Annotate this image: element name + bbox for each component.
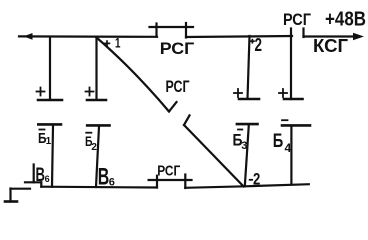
battery Б4 minus plate [282, 124, 310, 127]
svg-text:В: В [36, 165, 46, 186]
svg-text:КСГ: КСГ [313, 36, 348, 56]
wire W1 [52, 126, 53, 187]
battery Б4 plus plate [284, 98, 303, 101]
wire top bus left segment [19, 35, 157, 38]
svg-text:3: 3 [241, 140, 247, 152]
battery Б3 minus sign [238, 129, 242, 131]
contact Вб bridge [25, 181, 41, 183]
svg-text:2: 2 [255, 35, 263, 55]
battery Б1 plus sign [37, 88, 45, 96]
battery Б3 plus plate [239, 98, 259, 101]
battery Б3 plus sign [234, 89, 242, 97]
node КСГ arrow [353, 33, 364, 41]
svg-text:6: 6 [45, 174, 50, 184]
wire V4 [290, 29, 292, 100]
svg-text:Б: Б [273, 131, 284, 152]
wire top bus right segment [186, 36, 292, 37]
svg-text:РСГ: РСГ [160, 39, 195, 58]
svg-text:+48В: +48В [325, 9, 366, 31]
battery Б2 minus plate [87, 124, 109, 127]
wire bottom bus middle [41, 186, 157, 189]
battery Б4 minus sign [282, 119, 288, 121]
ground [5, 200, 17, 203]
svg-text:6: 6 [109, 177, 115, 189]
battery Б2 minus sign [86, 132, 91, 134]
battery Б1 minus plate [38, 123, 61, 126]
wire bottom bus right [185, 184, 308, 188]
svg-text:В: В [98, 164, 110, 191]
wire W3 [245, 125, 249, 186]
label -2 [249, 179, 253, 181]
wire КСГ output [304, 35, 357, 37]
svg-text:2: 2 [253, 170, 260, 189]
contact Вб step [40, 182, 42, 186]
wire W4 [290, 127, 292, 185]
contact РСГ1 left tick [155, 24, 157, 37]
svg-text:РСГ: РСГ [166, 77, 190, 96]
wire W2 [96, 127, 99, 188]
contact Вб tick [33, 165, 35, 183]
svg-text:РСГ: РСГ [283, 10, 311, 29]
wire bottom bus left [11, 188, 31, 190]
svg-text:4: 4 [285, 141, 292, 155]
switch blade diagonal upper [97, 38, 170, 112]
battery Б2 plus plate [87, 99, 106, 102]
label +2 [250, 39, 255, 44]
contact РСГ3 right tick [184, 175, 186, 189]
switch blade diagonal lower [184, 125, 244, 187]
contact РСГ1 bridge [150, 26, 194, 28]
battery Б2 plus sign [86, 88, 94, 96]
switch blade hook upper [169, 102, 177, 112]
label +1 [104, 40, 111, 47]
battery Б4 plus sign [279, 89, 287, 97]
battery Б1 plus plate [38, 99, 62, 102]
battery Б3 minus plate [237, 123, 258, 126]
svg-text:1: 1 [115, 35, 121, 51]
wire V1 [49, 37, 51, 100]
contact РСГ2 right terminal tick [302, 29, 304, 38]
node output arrow left [24, 33, 33, 40]
svg-text:1: 1 [46, 136, 52, 147]
wire V3 [248, 36, 250, 99]
battery Б1 minus sign [39, 129, 44, 131]
svg-text:РСГ: РСГ [157, 163, 180, 180]
contact РСГ1 right tick [185, 23, 187, 38]
contact РСГ3 bridge [149, 179, 192, 181]
contact РСГ3 left tick [156, 176, 158, 188]
svg-text:2: 2 [91, 142, 97, 153]
wire V2 [95, 37, 97, 100]
switch blade nub lower [184, 115, 190, 125]
